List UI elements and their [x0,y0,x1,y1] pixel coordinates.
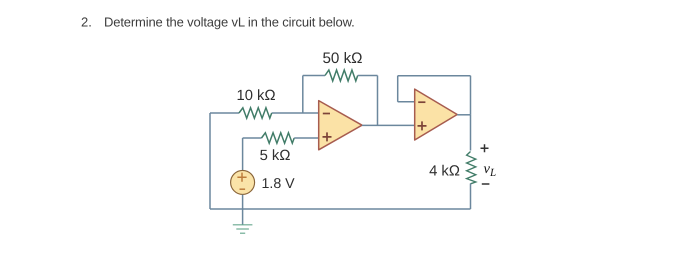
source minus sign [240,188,246,190]
wire: source bottom to ground [242,195,244,225]
wire [294,137,319,139]
wire: U1 output to U2 plus input [362,124,415,126]
op-amp U1 minus sign [323,113,330,115]
wire: load bottom vertical [470,184,472,210]
voltage source V1 1.8V circle [231,170,255,194]
op-amp U2 plus sign [418,121,427,130]
wire [272,112,319,114]
ground [233,225,253,233]
wire: U2 output [457,114,470,116]
wire: 10k input wire (left rail top to op-amp U1 inverting input) [210,112,239,114]
label minus below vL [482,183,490,185]
svg-text:5 kΩ: 5 kΩ [260,148,291,164]
wire: bottom rail [210,208,471,210]
wire: U2 feedback left vertical [397,76,399,102]
wire: U2 feedback top [398,75,471,77]
svg-text:2.: 2. [81,15,92,30]
resistor R 10k zigzag [239,108,272,118]
wire: U2 feedback right vertical [470,76,472,115]
op-amp U2 [415,89,458,140]
wire: feedback top right lead [358,75,378,77]
svg-text:Determine the voltage vL in th: Determine the voltage vL in the circuit … [104,15,355,30]
wire: 5k input wire [243,137,262,139]
wire: load top vertical [470,115,472,151]
label plus above vL [481,144,489,152]
wire: U2 inverting input stub [398,101,415,103]
source plus sign [237,173,246,182]
svg-text:50 kΩ: 50 kΩ [322,50,362,67]
resistor R 5k zigzag [262,133,295,143]
resistor R 50k zigzag [325,70,358,81]
svg-text:10 kΩ: 10 kΩ [236,88,275,104]
op-amp U1 plus sign [323,132,332,141]
svg-text:1.8 V: 1.8 V [262,176,296,192]
op-amp U1 [319,101,362,150]
op-amp U2 minus sign [418,101,425,103]
svg-text:4 kΩ: 4 kΩ [429,164,460,180]
wire: source top vertical [242,138,244,171]
wire: left rail vertical [209,113,211,209]
wire: feedback top left lead [303,75,325,77]
wire: feedback right vertical of U1 [377,76,379,126]
resistor R 4k vertical zigzag [467,152,476,184]
wire: feedback left vertical of U1 [302,76,304,114]
